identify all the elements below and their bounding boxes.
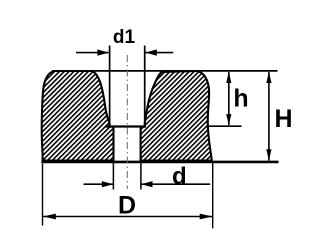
svg-text:d: d <box>172 163 187 190</box>
svg-text:d1: d1 <box>113 27 136 48</box>
dimension H arrow <box>268 72 270 161</box>
dimension D line with inside arrows <box>43 216 213 218</box>
svg-text:D: D <box>118 192 136 220</box>
extension line d1 right <box>144 46 146 127</box>
bottom base line / extension line for H <box>41 161 278 164</box>
dimension h arrow <box>228 72 230 125</box>
dimension d: right arrow <box>141 183 210 185</box>
counterbore bottom step line <box>106 125 146 127</box>
dimension d1: left arrow <box>76 52 109 54</box>
extension line d right <box>140 163 142 190</box>
left cross-section lobe (hatched) <box>42 71 114 161</box>
dimension d: left arrow <box>84 183 114 185</box>
svg-text:H: H <box>274 105 292 133</box>
extension line d left (hole wall continuation) <box>112 163 114 190</box>
extension line D right <box>212 163 214 229</box>
dimension d1: right arrow <box>146 52 174 54</box>
right cross-section lobe (hatched) <box>141 71 212 161</box>
svg-text:h: h <box>233 85 248 113</box>
extension line h bottom (recess shoulder level) <box>209 125 242 127</box>
extension line d1 left <box>109 46 111 127</box>
centerline (dash-dot) <box>126 55 128 189</box>
extension line D left <box>42 164 44 226</box>
top surface line / extension line for h and H <box>52 70 278 72</box>
